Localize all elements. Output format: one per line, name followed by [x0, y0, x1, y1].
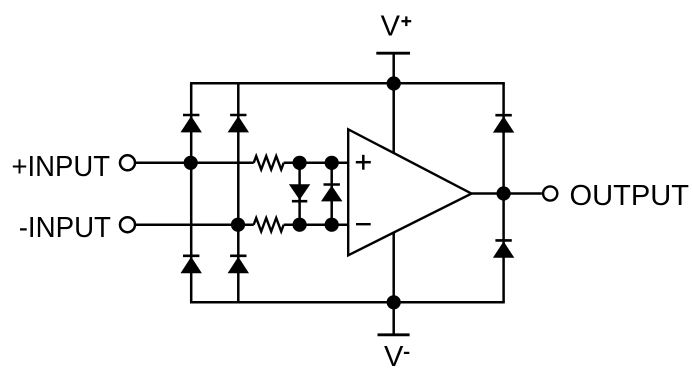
terminal +INPUT: [120, 155, 135, 170]
V- rail bar: [378, 333, 410, 336]
op-amp U1: [348, 129, 471, 255]
svg-text:V: V: [381, 10, 401, 42]
wire op-amp V+ pin: [392, 83, 395, 160]
resistor R1 (+input): [254, 156, 284, 170]
V+ rail bar: [376, 52, 410, 55]
wire right column: [502, 83, 505, 302]
op-amp - input marker: [356, 223, 371, 225]
wire clamp diode column A: [298, 163, 301, 225]
diode D6 (clamp, pointing up): [321, 185, 342, 202]
wire +input: [135, 162, 254, 165]
wire middle column: [237, 83, 240, 302]
junction node: clamp A top: [293, 156, 307, 170]
wire output: [472, 192, 542, 195]
svg-text:OUTPUT: OUTPUT: [570, 180, 690, 212]
junction node: V- rail: [387, 295, 401, 309]
junction node: clamp B top: [325, 156, 339, 170]
junction node: output: [497, 186, 511, 200]
wire clamp diode column B: [330, 163, 333, 225]
wire V- stem: [392, 302, 395, 335]
diode D1 (left column, top, pointing up): [181, 115, 202, 132]
junction node: +input / left column: [184, 156, 198, 170]
terminal OUTPUT: [543, 186, 557, 200]
svg-text:-INPUT: -INPUT: [19, 212, 112, 244]
diode D8 (right column, bottom, pointing up): [493, 240, 514, 257]
wire left column: [190, 83, 193, 302]
wire V+ stem: [392, 53, 395, 83]
junction node: V+ rail: [387, 76, 401, 90]
label V-: [384, 341, 409, 373]
wire op-amp V- pin: [392, 228, 395, 302]
resistor R2 (-input): [254, 218, 284, 232]
diode D7 (right column, top, pointing up): [493, 115, 514, 132]
wire -input to op-amp: [284, 223, 349, 226]
svg-text:V: V: [384, 341, 404, 373]
terminal -INPUT: [120, 217, 135, 232]
junction node: -input / middle column: [231, 218, 245, 232]
diode D5 (clamp, pointing down): [289, 184, 310, 201]
label V+: [381, 10, 412, 42]
wire +input to op-amp: [284, 162, 349, 165]
junction node: clamp A bottom: [293, 218, 307, 232]
junction node: clamp B bottom: [325, 218, 339, 232]
diode D3 (left column, bottom, pointing up): [181, 256, 202, 273]
wire -input: [135, 223, 254, 226]
diode D4 (middle column, bottom, pointing up): [228, 256, 249, 273]
svg-text:+INPUT: +INPUT: [12, 151, 111, 183]
wire top rail: [190, 82, 505, 85]
op-amp + input marker: [356, 161, 371, 164]
wire bottom rail: [190, 301, 505, 304]
diode D2 (middle column, top, pointing up): [228, 115, 249, 132]
